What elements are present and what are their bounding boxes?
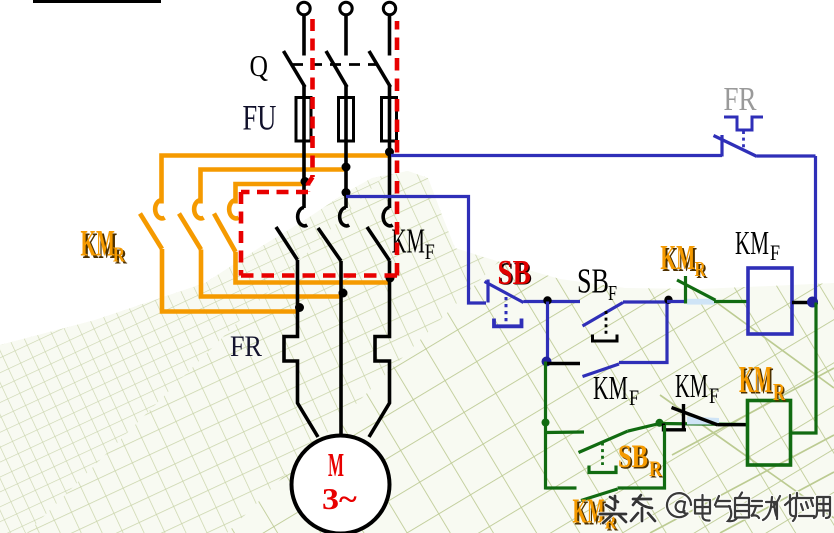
label FU bbox=[243, 98, 277, 138]
svg-text:KM: KM bbox=[660, 240, 695, 278]
wire phase2 lower (straight to motor) bbox=[339, 261, 343, 435]
wire orange feed B: phase2 tap to KM_R contact2 bbox=[201, 170, 347, 204]
wire blue tap B down to SB bbox=[346, 197, 486, 304]
contact KM_R aux (NO self-hold reverse) bbox=[546, 425, 665, 501]
svg-text:R: R bbox=[773, 380, 786, 406]
label KM_R (coil, orange) bbox=[739, 358, 787, 407]
fuse FU1 bbox=[296, 98, 311, 142]
wire green row2 to coil bbox=[660, 424, 748, 425]
label KM_F (coil) bbox=[735, 225, 780, 265]
contactor KM_R main contact 1 bbox=[140, 200, 165, 249]
fuse FU2 bbox=[339, 98, 354, 142]
wire orange out 3: contact3 to phase3 lower bbox=[236, 252, 390, 283]
contact FR (NC) bbox=[714, 135, 816, 157]
label KM_R (interlock, orange) bbox=[660, 240, 708, 283]
phase terminal circles bbox=[298, 2, 396, 14]
contact KM_F interlock (NC, black) bbox=[664, 404, 748, 431]
wire orange out 1: contact1 to phase1 lower bbox=[162, 249, 298, 312]
svg-text:KM: KM bbox=[81, 224, 115, 264]
node L2 terminal bbox=[340, 2, 352, 14]
button SB_R (NO start, reverse) bbox=[546, 424, 660, 473]
svg-text:F: F bbox=[629, 386, 639, 410]
node phase1 lower orange tap bbox=[295, 303, 304, 312]
wire blue node C stub bbox=[667, 300, 684, 303]
label KM_R (main, orange) bbox=[81, 224, 128, 269]
contact KM_F aux (NO self-hold) bbox=[547, 302, 668, 377]
svg-text:3~: 3~ bbox=[322, 482, 357, 516]
main black wires / switch Q bbox=[284, 14, 391, 100]
node phase2/orangeB tap bbox=[342, 163, 351, 172]
wire coil KM_F to rail (black) bbox=[792, 301, 818, 304]
node F junction SB_R/KM_F interlock (green) bbox=[656, 419, 664, 427]
label FR (main) bbox=[230, 330, 262, 363]
wire phase3 top drop bbox=[388, 14, 392, 56]
wire phase3 to fuse bbox=[388, 85, 392, 100]
node phase2 lower orange tap bbox=[339, 289, 348, 298]
switch Q linkage (dashed) bbox=[292, 63, 378, 66]
wire phase3 fuse to KM_F contact bbox=[388, 141, 392, 208]
node C junction SB_F/KM_R interlock bbox=[664, 296, 672, 304]
junction dots main circuit bbox=[295, 148, 395, 313]
wire through fuses bbox=[304, 99, 390, 140]
wire phase1 fuse to KM_F contact bbox=[302, 141, 306, 208]
fuse FU3 bbox=[382, 98, 397, 142]
node phase3 lower orange tap bbox=[386, 274, 395, 283]
node phase2/controlB tap bbox=[342, 188, 351, 197]
label KM_F (interlock) bbox=[675, 368, 719, 409]
contactor KM_F main contact 2 bbox=[318, 208, 349, 262]
label KM_R (bottom, orange) bbox=[573, 493, 619, 533]
wire orange feed A: phase3 tap to KM_R contact1 bbox=[162, 156, 390, 204]
wire green left rail down bbox=[544, 362, 547, 490]
contactor KM_R main contact 2 bbox=[179, 200, 204, 250]
highlight strip under KM_F interlock bbox=[687, 417, 719, 425]
node phase1/orangeC tap bbox=[301, 177, 310, 186]
svg-text:F: F bbox=[608, 282, 617, 306]
node phase3/controlA tap bbox=[385, 148, 394, 157]
svg-text:R: R bbox=[649, 457, 662, 481]
button SB (NC stop) bbox=[485, 280, 581, 323]
svg-text:F: F bbox=[770, 241, 780, 265]
switch Q blade pole3 bbox=[369, 51, 391, 87]
svg-text:FR: FR bbox=[724, 80, 758, 118]
label Q bbox=[250, 50, 269, 84]
svg-text:KM: KM bbox=[593, 370, 628, 407]
red dashed annotation box bbox=[241, 19, 397, 276]
svg-text:KM: KM bbox=[739, 358, 772, 401]
switch Q blade pole1 bbox=[284, 51, 306, 87]
svg-text:R: R bbox=[695, 258, 707, 281]
wire phase3 lower bbox=[369, 261, 390, 438]
wire node A down to self-hold bbox=[546, 302, 549, 362]
node L3 terminal bbox=[383, 2, 395, 14]
contact KM_R interlock (NC, green) bbox=[677, 276, 748, 304]
label KM_F (self-hold) bbox=[593, 370, 639, 410]
svg-text:SB: SB bbox=[618, 439, 648, 475]
relay FR linkage dotted bbox=[742, 131, 745, 148]
wire blue right rail bbox=[814, 156, 817, 302]
wire phase2 top drop bbox=[344, 14, 348, 56]
wire phase1 lower bbox=[284, 260, 318, 437]
wire orange out 2: contact2 to phase2 lower bbox=[201, 250, 341, 297]
svg-text:FU: FU bbox=[243, 98, 277, 138]
wire: orange bottom-left cross link L1 (contact1 out to phase1) bbox=[162, 156, 390, 312]
svg-text:R: R bbox=[113, 244, 126, 267]
svg-text:KM: KM bbox=[675, 368, 708, 406]
motor M bbox=[292, 436, 390, 533]
coil KM_R bbox=[748, 401, 791, 466]
node B self-hold tap (blue dot) bbox=[542, 357, 552, 367]
label SB (red) bbox=[498, 253, 532, 292]
svg-text:FR: FR bbox=[230, 330, 262, 363]
node L1 terminal bbox=[298, 2, 310, 14]
svg-text:F: F bbox=[709, 384, 719, 408]
svg-text:SB: SB bbox=[498, 253, 531, 292]
wire blue top (phase3 to FR contact) bbox=[391, 154, 722, 157]
label FR (relay, gray) bbox=[724, 80, 758, 118]
svg-text:SB: SB bbox=[577, 261, 609, 301]
coil KM_F bbox=[748, 268, 792, 334]
highlight strip under KM_R interlock bbox=[687, 299, 715, 305]
svg-text:Q: Q bbox=[250, 50, 269, 84]
button SB cap bracket bbox=[593, 335, 618, 342]
node E reverse branch tap (green) bbox=[542, 419, 550, 427]
node D coil/rail junction (blue dot) bbox=[807, 297, 818, 308]
contactor KM_F main contact 1 bbox=[276, 208, 307, 261]
relay FR thermal element symbol bbox=[724, 117, 763, 130]
svg-text:KM: KM bbox=[735, 225, 769, 262]
svg-text:F: F bbox=[425, 240, 435, 264]
top border artifact line bbox=[33, 0, 161, 3]
contactor KM_F main contact 3 bbox=[367, 208, 393, 261]
button SB_F (NO start, forward) bbox=[583, 302, 668, 326]
label SB_F bbox=[577, 261, 617, 306]
label SB_R (orange) bbox=[618, 439, 664, 483]
wire phase2 fuse to KM_F contact bbox=[344, 141, 348, 208]
wire phase1 top drop bbox=[302, 14, 306, 56]
button SB_F plunger dotted bbox=[605, 311, 608, 336]
lower main wires + FR heaters bbox=[284, 260, 390, 437]
button SB cap bbox=[494, 319, 522, 327]
wire phase2 to fuse bbox=[344, 85, 348, 100]
wire phase1 to fuse bbox=[302, 85, 306, 100]
contactor KM_R main contact 3 bbox=[214, 200, 239, 252]
switch Q blade pole2 bbox=[326, 51, 347, 87]
node A after SB bbox=[543, 296, 551, 304]
svg-text:M: M bbox=[328, 446, 344, 484]
wire coil KM_R to rail (green) bbox=[791, 303, 817, 434]
wire orange feed C: phase1 tap to KM_R contact3 bbox=[236, 184, 307, 204]
label KM_F (main) bbox=[392, 222, 435, 265]
watermark 头条 @电气自动化应用 bbox=[600, 493, 830, 524]
